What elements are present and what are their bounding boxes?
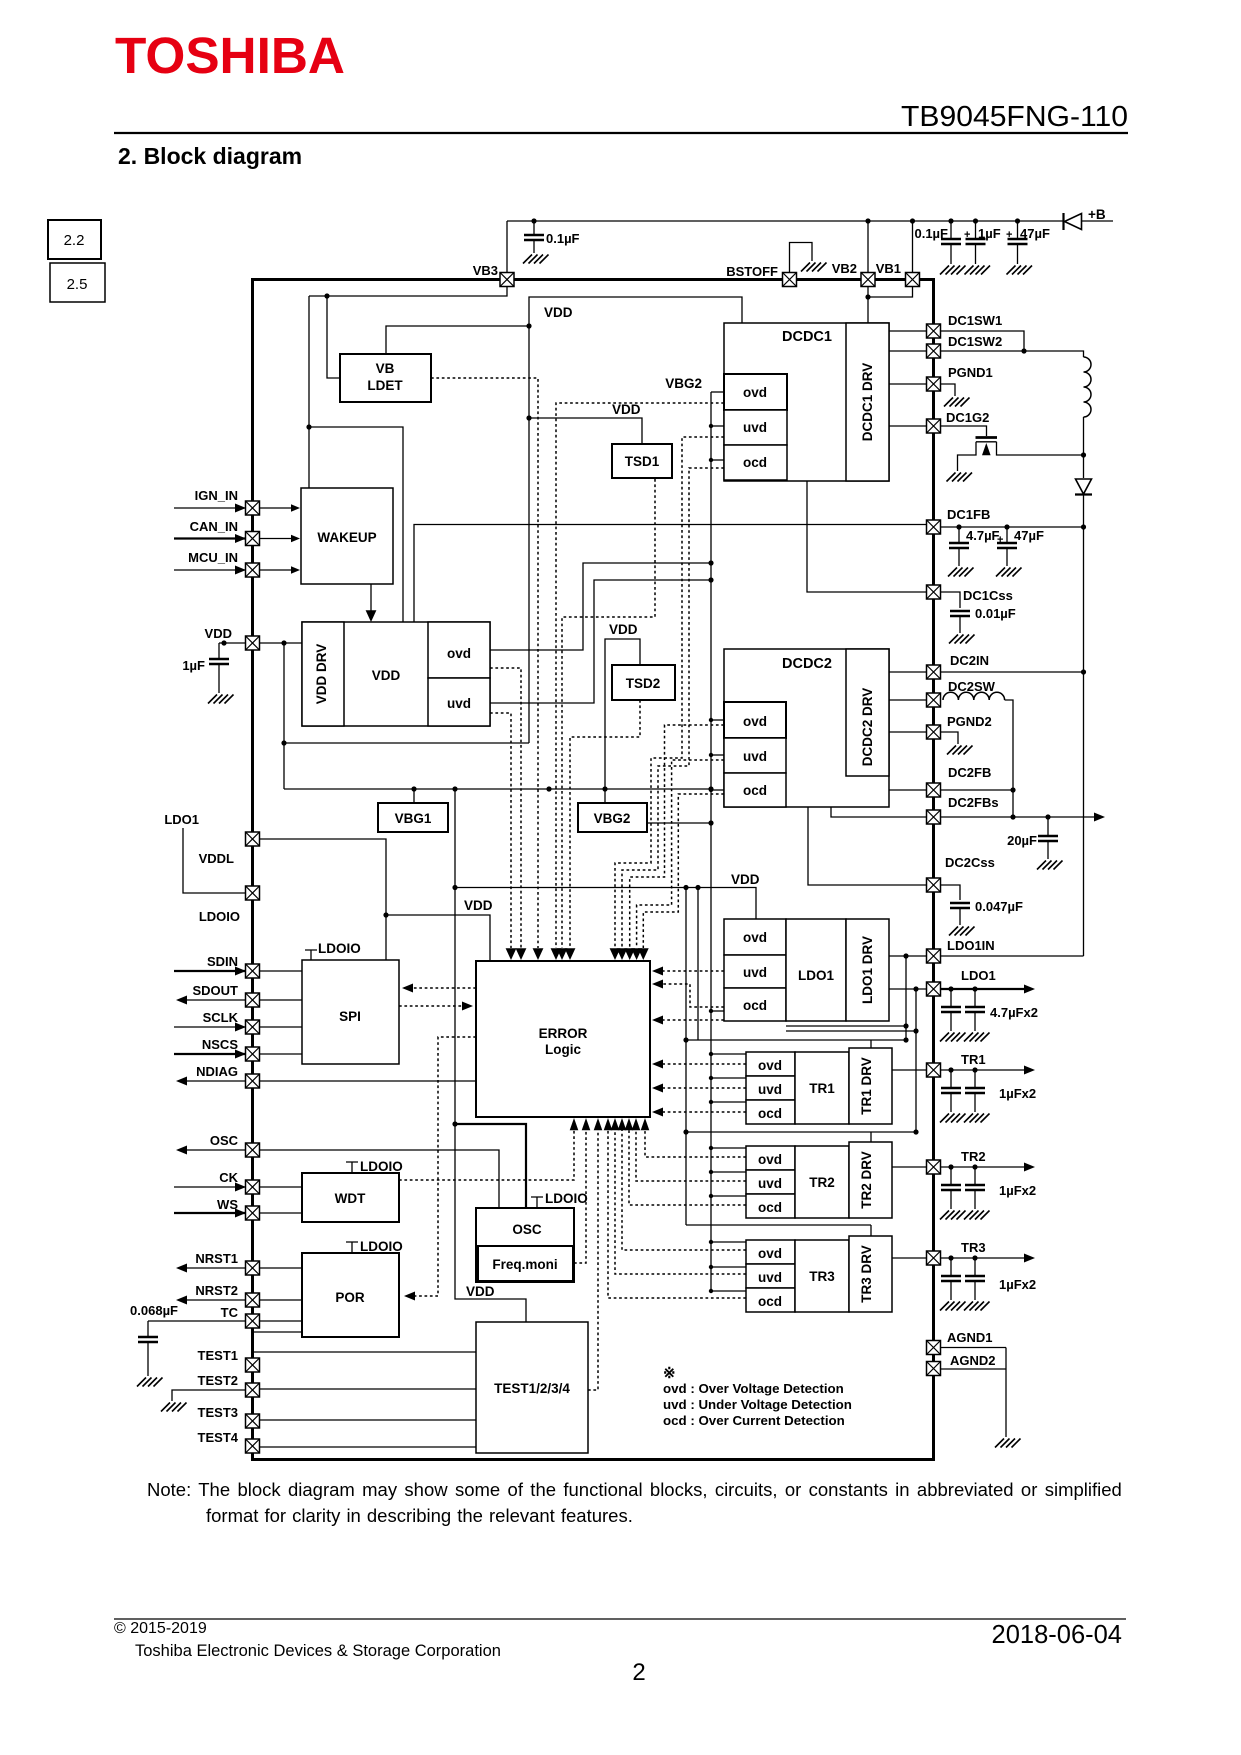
node VDD feed [281,640,286,645]
pin TEST4 [246,1439,260,1453]
block TSD2 [612,665,675,700]
svg-text:TEST1: TEST1 [198,1348,238,1363]
wire LDO1IN internal [889,955,927,957]
wire DCDC2 DRV to DC2IN [889,671,927,673]
pin DC1FB [927,520,941,534]
stub TR3 ocd [711,1290,746,1292]
wire DC2FB to DC2FBs [1012,790,1014,817]
wire AGND to ground [1005,1369,1007,1437]
pin NSCS [246,1047,260,1061]
wire VBG supply rail y789 [284,788,711,790]
svg-text:LDOIO: LDOIO [360,1239,403,1254]
ground (TR1 caps) [964,1114,990,1123]
ground (BSTOFF) [801,263,827,272]
svg-text:Logic: Logic [545,1042,581,1057]
wire WS in [174,1212,246,1214]
wire CAN_IN in [174,537,246,539]
PAGE FOOTER [114,1618,1126,1620]
wire TEST1 [254,1351,476,1353]
pin VDDL [246,832,260,846]
node DC2FB junction [1010,787,1015,792]
svg-text:Freq.moni: Freq.moni [492,1257,557,1272]
wire TR2 output [941,1166,1031,1168]
wire TR2 DRV output [892,1166,927,1168]
wire +B top rail [507,220,1064,222]
capacitor 47uF (DC1FB) [1004,524,1009,529]
svg-text:DC1FB: DC1FB [947,507,990,522]
wire DC2FBs external with arrow [941,816,1101,818]
stub TR1 ovd [711,1053,746,1055]
svg-text:1µF: 1µF [182,658,205,673]
node VB LDET branch [324,293,329,298]
block DCDC2 ocd [724,773,786,807]
wire VDD feed riser [283,643,285,789]
block LDO1 [786,919,846,1021]
node VDD domain edge [526,323,531,328]
ground (TR2 caps) [964,1211,990,1220]
block VBG2 [578,803,647,832]
dotted DCDC2 uvd to ERROR [643,794,724,948]
wire y743 to VDD domain [284,742,529,744]
pin PGND1 [927,377,941,391]
svg-text:TR3: TR3 [809,1269,835,1284]
wire OSC out [181,1149,246,1151]
svg-text:TR3: TR3 [961,1240,986,1255]
dotted DCDC1 uvd to ERROR [622,468,724,948]
wire TR2 supply y1132 [686,1131,916,1133]
capacitor 4.7uF (DC1FB) [956,524,961,529]
wire VB2 riser [867,221,869,273]
svg-text:TR2: TR2 [809,1175,835,1190]
pin BSTOFF [783,273,797,287]
stub TR1 ocd [711,1101,746,1103]
pin DC2FBs [927,810,941,824]
svg-text:TB9045FNG-110: TB9045FNG-110 [901,101,1128,133]
svg-text:ocd: ocd [758,1106,782,1121]
wire AGND2 [941,1368,1007,1370]
capacitor 1uF (VDD) [218,643,220,659]
svg-text:SDIN: SDIN [207,954,238,969]
pin DC2SW [927,693,941,707]
BSTOFF ground loop [790,243,813,274]
wire OSC output [260,1150,500,1208]
ground (20uF) [1037,861,1063,870]
dotted DCDC1 ocd to ERROR [630,725,724,948]
transistor Q1 (external NMOS) [976,436,998,439]
capacitor 20uF (DC2FBs) [1045,814,1050,819]
wire VDDL to SPI LDOIO [260,839,387,960]
wire NRST2 to POR [260,1299,303,1301]
node Q1 drain [1081,452,1086,457]
header rule [114,132,1128,134]
ground (0.1uF rail cap) [940,266,966,275]
block DCDC1 ovd [724,374,787,410]
block OSC / Freq.moni [476,1208,574,1282]
dotted TEST to ERROR [588,1122,598,1390]
LDOIO tap (POR) [346,1242,358,1253]
svg-text:0.047µF: 0.047µF [975,899,1023,914]
capacitor 0.01uF (DC1Css) [950,611,970,616]
svg-text:WAKEUP: WAKEUP [317,530,376,545]
block TR2 ocd [746,1194,795,1218]
wire TR2 DRV riser [870,1132,872,1142]
IC outer border [253,280,934,1460]
svg-text:WDT: WDT [335,1191,366,1206]
capacitor 1uFx2 (TR1) [948,1067,953,1072]
svg-text:DC2SW: DC2SW [948,679,996,694]
dotted LDO1 ocd to ERROR [656,984,724,1007]
wire LDO1 output [941,988,1031,990]
block SPI [302,960,399,1064]
svg-text:LDO1: LDO1 [164,812,199,827]
wire NRST1 to POR [260,1267,303,1269]
dotted TSD2 to ERROR [570,700,640,948]
svg-text:ovd: ovd [758,1246,782,1261]
stub TR3 ovd [711,1241,746,1243]
ground (DC2Css cap) [949,927,975,936]
wire DC1SW1 out [941,331,1025,351]
wire NRST2 out [181,1299,246,1301]
ground (PGND2) [947,746,973,755]
block TR3 DRV [849,1236,892,1312]
svg-text:1µFx2: 1µFx2 [999,1183,1036,1198]
stub DCDC2 ocd [711,789,724,791]
svg-text:0.01µF: 0.01µF [975,606,1016,621]
block DCDC1 [724,323,889,481]
wire DC1FB node to DC2IN [1083,527,1085,672]
wire DCDC1 DRV to DC1G2 [889,425,927,427]
wire DCDC2 to DC2FB [889,789,927,791]
node LDOIO rail [383,912,388,917]
pin TR1 [927,1063,941,1077]
svg-text:Toshiba Electronic Devices & S: Toshiba Electronic Devices & Storage Cor… [135,1642,501,1660]
capacitor 0.1uF (VB3) [533,221,535,235]
block TR3 ocd [746,1288,795,1312]
wire LDO1 fb pair [786,1025,906,1027]
wire TEST4 [260,1446,477,1448]
wire SDOUT out [181,999,246,1001]
node VDD OSC [452,1121,457,1126]
svg-text:IGN_IN: IGN_IN [195,488,238,503]
dotted TR2 ocd to ERROR [629,1122,746,1205]
svg-text:LDOIO: LDOIO [360,1159,403,1174]
svg-text:format for clarity in describi: format for clarity in describing the rel… [206,1505,633,1526]
svg-text:2. Block diagram: 2. Block diagram [118,143,302,169]
pin DC1SW2 [927,344,941,358]
pin AGND1 [927,1341,941,1355]
wire supply trunk x698 [697,888,699,1041]
svg-text:uvd: uvd [758,1176,782,1191]
svg-text:LDOIO: LDOIO [318,941,361,956]
svg-text:4.7µFx2: 4.7µFx2 [990,1005,1038,1020]
wire MCU_IN in [174,569,246,571]
wire PGND2 to ground [941,732,959,744]
svg-text:ovd: ovd [743,930,767,945]
wire DCDC2 to DC2FBs [831,807,927,817]
pin VDD [246,636,260,650]
block POR [302,1253,399,1337]
node x455 start [452,786,457,791]
svg-text:NDIAG: NDIAG [196,1064,238,1079]
block TR2 DRV [849,1142,892,1218]
wire arrow WAKEUP to VDD block [370,584,372,619]
ground (VB3 cap) [523,255,549,264]
svg-text:OSC: OSC [512,1222,542,1237]
diode D2 (freewheel) [1083,455,1085,478]
block TR1 ocd [746,1100,795,1124]
svg-text:VB1: VB1 [876,261,901,276]
ground (Q1 source) [947,473,973,482]
block LDO1 uvd [724,955,786,988]
dotted LDO1 sense to ERROR [656,1019,724,1021]
pin OSC [246,1143,260,1157]
svg-text:NRST2: NRST2 [195,1283,238,1298]
svg-text:1µFx2: 1µFx2 [999,1086,1036,1101]
block VDD ovd [428,622,490,678]
svg-text:DC1SW1: DC1SW1 [948,313,1002,328]
ground (47uF cap) [1007,266,1033,275]
svg-text:POR: POR [335,1290,365,1305]
block DCDC2 [724,649,889,807]
pin TR2 [927,1160,941,1174]
block DCDC2 DRV [846,649,889,776]
wire LDO1IN external [941,955,1084,957]
svg-text:TR2: TR2 [961,1149,986,1164]
svg-text:TEST1/2/3/4: TEST1/2/3/4 [494,1381,570,1396]
ref box 2.2 [48,220,101,259]
block LDO1 ovd [724,919,786,955]
svg-text:VDD: VDD [544,305,573,320]
wire VB3 riser [506,221,508,273]
svg-text:LDET: LDET [367,378,403,393]
wire TR3 output [941,1257,1031,1259]
svg-text:DC2Css: DC2Css [945,855,995,870]
wire SCLK to SPI [260,1026,303,1028]
svg-text:CK: CK [219,1170,238,1185]
block TEST1/2/3/4 [476,1322,588,1453]
pin NRST2 [246,1293,260,1307]
svg-text:2.5: 2.5 [67,276,88,293]
pin TC [246,1314,260,1328]
pin AGND2 [927,1362,941,1376]
svg-text:2: 2 [632,1659,645,1686]
wire VBG2 to bus [647,822,711,824]
block DCDC2 uvd [724,738,786,773]
svg-text:+: + [997,534,1003,546]
wire TC to POR [260,1320,303,1322]
block TR1 uvd [746,1076,795,1100]
block DCDC2 ovd [724,702,786,738]
svg-text:ocd : Over Current Detection: ocd : Over Current Detection [663,1413,845,1428]
svg-text:uvd: uvd [758,1082,782,1097]
svg-text:※: ※ [663,1365,676,1382]
pin DC2IN [927,665,941,679]
pin DC1G2 [927,419,941,433]
pin VB2 [861,273,875,287]
LDOIO tap (SPI) [305,950,317,960]
wire TR3 supply y1225 [686,1224,871,1226]
pin LDOIO [246,886,260,900]
svg-text:+B: +B [1088,207,1106,222]
svg-text:ocd: ocd [743,783,767,798]
svg-text:LDO1 DRV: LDO1 DRV [860,936,875,1004]
stub DCDC1 uvd [711,425,724,427]
wire SCLK in [174,1026,246,1028]
wire DC1G2 to gate [941,426,987,436]
stub DCDC2 uvd [711,754,724,756]
svg-text:DC1SW2: DC1SW2 [948,334,1002,349]
stub TR1 uvd [711,1077,746,1079]
capacitor 0.047uF (DC2Css) [950,903,970,908]
block VDD uvd [428,678,490,726]
wire DC1SW2 out [941,351,1084,357]
svg-text:DCDC1: DCDC1 [782,329,832,345]
svg-text:TC: TC [221,1305,239,1320]
ground (4.7uF) [948,568,974,577]
ground (DC1Css cap) [949,635,975,644]
ground (VDD cap) [208,695,234,704]
wire PGND1 to ground [941,384,956,396]
pin TR3 [927,1251,941,1265]
svg-text:TOSHIBA: TOSHIBA [115,27,345,84]
node DC2FBs junction [1010,814,1015,819]
svg-text:47µF: 47µF [1014,528,1044,543]
svg-text:VDD: VDD [205,626,232,641]
wire LDOIO external to LDO1 [183,828,246,893]
dotted TSD1 to ERROR [562,479,655,948]
svg-text:ocd: ocd [743,998,767,1013]
wire DCDC2 DRV to PGND2 [889,731,927,733]
dotted TR2 ovd to ERROR [645,1122,746,1157]
wire TR3 DRV riser [870,1225,872,1236]
wire DCDC2 to DC2Css [808,807,927,885]
svg-text:0.1µF: 0.1µF [914,226,948,241]
diode D1 (+B reverse protection) [1065,214,1082,230]
dotted DCDC2 ovd to ERROR [637,760,724,948]
capacitor 1uFx2 (TR3) [948,1255,953,1260]
svg-text:ovd: ovd [447,646,471,661]
wire VB3 internal [309,287,507,297]
svg-text:WS: WS [217,1197,238,1212]
LDOIO tap (WDT) [346,1162,358,1173]
svg-text:TR1 DRV: TR1 DRV [859,1057,874,1115]
svg-text:OSC: OSC [210,1133,239,1148]
block TSD1 [612,444,672,478]
svg-text:2018-06-04: 2018-06-04 [992,1621,1122,1649]
wire DC1FB external [941,526,1084,528]
wire coil to FET node [1083,417,1085,455]
capacitor 1uF polarized [973,218,978,223]
ground (TR3 caps) [964,1302,990,1311]
dotted TR1 uvd to ERROR [656,1087,746,1089]
pin WS [246,1206,260,1220]
pin DC2FB [927,783,941,797]
stub DCDC2 ovd [711,719,724,721]
inductor L1 (buck coil) [1084,357,1092,417]
block TR3 ovd [746,1240,795,1264]
comparator bus x711 [710,392,712,1291]
ground (TC cap) [137,1378,163,1387]
stub DCDC1 ovd [711,391,724,393]
dotted Freq.moni to ERROR [574,1122,586,1263]
svg-text:© 2015-2019: © 2015-2019 [114,1620,207,1637]
wire SDOUT to SPI [260,999,303,1001]
pin PGND2 [927,725,941,739]
wire VDD to TSD1 [529,418,642,444]
wire CK to WDT [260,1186,303,1188]
svg-text:VB: VB [376,361,395,376]
wire VBG1 riser [413,789,415,803]
svg-text:SCLK: SCLK [203,1010,239,1025]
wire POR aux [254,1331,302,1333]
capacitor 0.068uF (TC) [147,1321,149,1337]
svg-text:TR2 DRV: TR2 DRV [859,1151,874,1209]
svg-text:ocd: ocd [758,1294,782,1309]
svg-text:ocd: ocd [743,455,767,470]
wire VB LDET to VDD domain [386,326,529,354]
pin NRST1 [246,1261,260,1275]
dotted VDD ovd to ERROR [490,668,521,948]
wire VDD uvd output [490,580,711,703]
wire TEST3 [260,1419,477,1421]
pin TEST1 [246,1358,260,1372]
wire DCDC2 DRV to DC2SW [889,699,927,701]
block TR1 ovd [746,1052,795,1076]
node DC1FB diode junction [1081,524,1086,529]
svg-text:TR1: TR1 [961,1052,986,1067]
svg-text:PGND2: PGND2 [947,714,992,729]
capacitor 4.7uFx2 (LDO1) [948,986,953,991]
wire DCDC1 to DC1Css [807,481,927,592]
wire AGND1 [941,1347,1007,1349]
svg-text:VDD: VDD [731,872,760,887]
wire DCDC1 DRV to DC1SW1 [889,330,927,332]
block TR1 [795,1052,849,1124]
wire WAKEUP node to VDD block [309,427,403,622]
LDOIO tap (OSC) [531,1197,543,1208]
wire NSCS to SPI [260,1053,303,1055]
wire TSD2 supply [605,639,640,803]
stub LDO1 ocd [711,1010,724,1012]
inductor L2 (DC2SW coil) [943,692,1005,700]
svg-text:DC2FBs: DC2FBs [948,795,999,810]
wire VB3 to WAKEUP [308,296,310,488]
pin DC1SW1 [927,324,941,338]
pin DC2Css [927,878,941,892]
wire VDD rail y887 [455,888,756,920]
ground (AGND) [995,1439,1021,1448]
wire LDOIO to ERROR [386,915,490,961]
svg-text:VDD: VDD [466,1284,495,1299]
wire IGN_IN in [174,507,246,509]
wire NSCS in [174,1053,246,1055]
block LDO1 ocd [724,988,786,1021]
block VB LDET U1 [340,354,431,402]
block VDD regulator group [302,622,490,726]
svg-text:MCU_IN: MCU_IN [188,550,238,565]
node DC2IN junction [1081,669,1086,674]
block WAKEUP U2 [301,488,393,584]
stub TR2 ovd [711,1147,746,1149]
dotted TR3 ovd to ERROR [622,1122,746,1250]
svg-text:uvd: uvd [743,965,767,980]
svg-text:DCDC1 DRV: DCDC1 DRV [860,363,875,442]
wire WS to WDT [260,1212,303,1214]
dotted TR3 uvd to ERROR [615,1122,746,1274]
svg-text:VB3: VB3 [473,263,498,278]
ground (1uF cap) [965,266,991,275]
dotted VB LDET to ERROR [431,378,538,948]
